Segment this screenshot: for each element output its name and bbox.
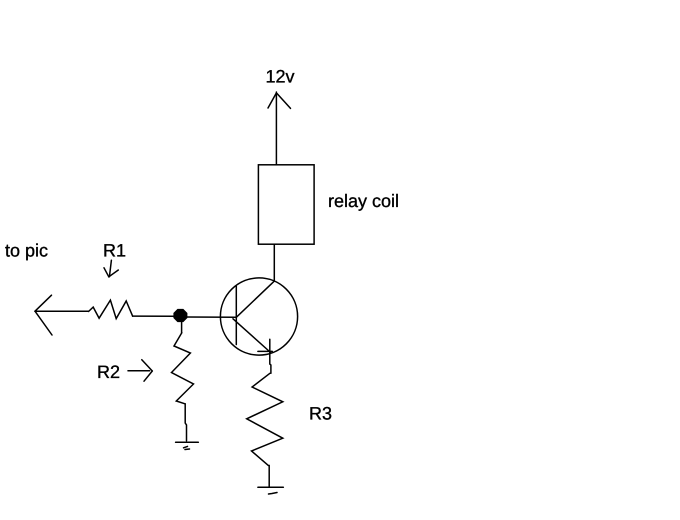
svg-text:R2: R2 <box>97 362 120 382</box>
svg-text:12v: 12v <box>266 67 295 87</box>
svg-text:R1: R1 <box>103 240 126 260</box>
svg-text:relay coil: relay coil <box>328 191 399 211</box>
svg-text:R3: R3 <box>309 403 332 423</box>
svg-text:to pic: to pic <box>5 241 48 261</box>
